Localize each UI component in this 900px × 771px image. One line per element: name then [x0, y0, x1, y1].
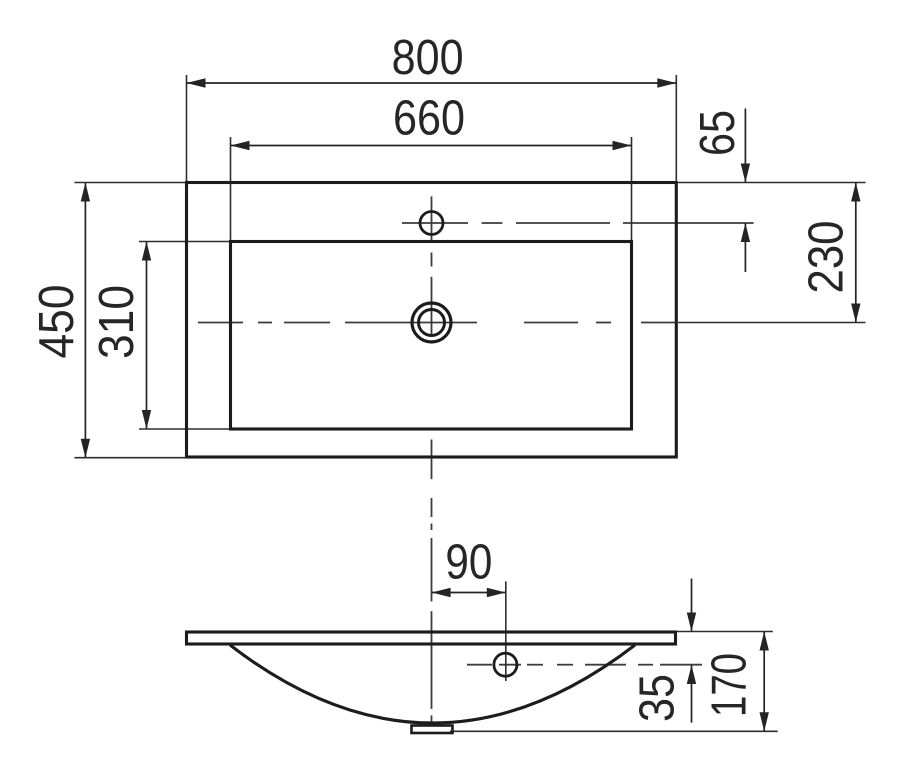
- svg-text:90: 90: [445, 536, 492, 590]
- svg-text:170: 170: [702, 653, 756, 717]
- svg-text:65: 65: [691, 110, 745, 156]
- svg-text:310: 310: [90, 285, 144, 359]
- svg-text:660: 660: [393, 92, 465, 146]
- svg-text:800: 800: [392, 31, 464, 85]
- svg-text:35: 35: [630, 674, 684, 722]
- svg-text:230: 230: [800, 221, 854, 294]
- svg-text:450: 450: [30, 285, 84, 359]
